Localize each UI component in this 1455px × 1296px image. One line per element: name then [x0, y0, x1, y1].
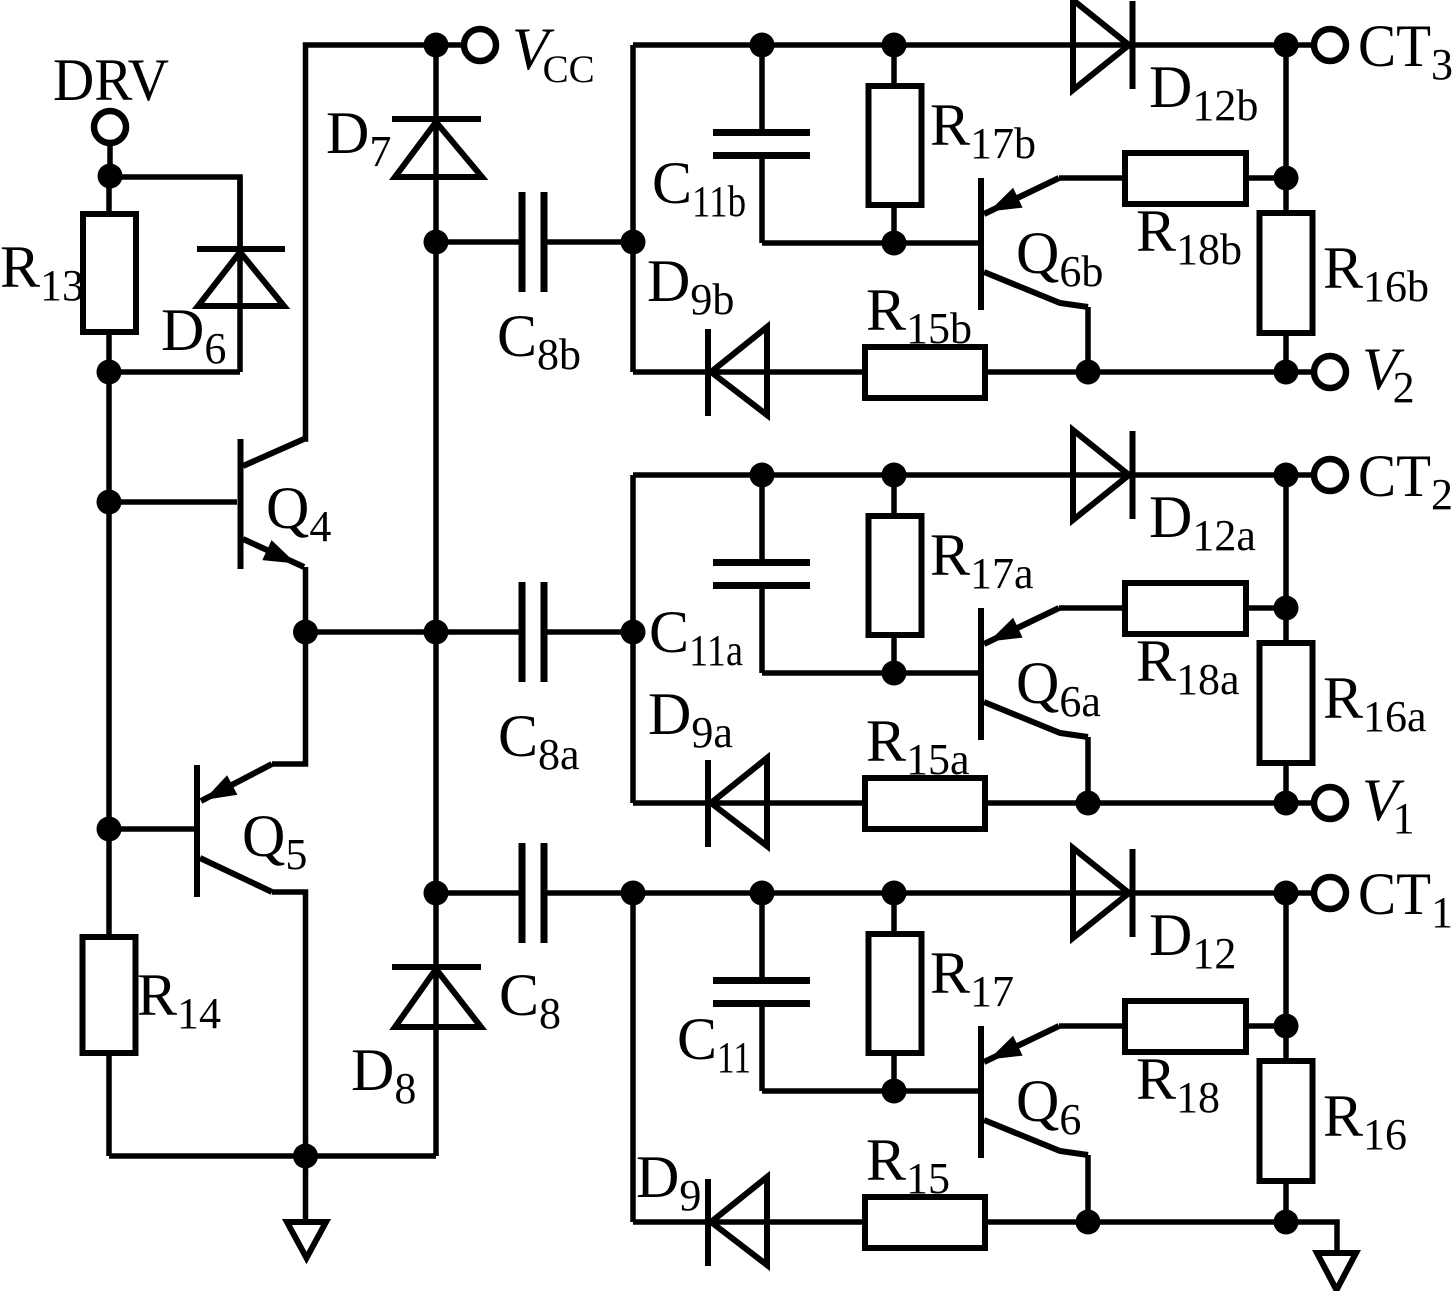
transistor Q5: [194, 765, 200, 897]
diode D12a: [1073, 430, 1129, 520]
wire R18b to right rail: [1246, 175, 1286, 181]
resistor R16: [1260, 1061, 1313, 1181]
wire C8 to row 1: [548, 890, 632, 896]
transistor Q6: [978, 1026, 984, 1158]
wire Q6 emitter to R18: [1059, 1023, 1125, 1029]
ground symbol right: [1317, 1253, 1356, 1290]
wire stage 1 top rail: [633, 890, 1286, 896]
node R18 junction: [1274, 1014, 1299, 1039]
wire C8b to row b: [548, 239, 634, 245]
diode D8: [395, 969, 481, 1027]
wire Q6b collector down: [1085, 307, 1091, 372]
resistor R13: [106, 176, 112, 214]
node CT3 junction: [1274, 33, 1299, 58]
wire C8a to row a: [548, 629, 634, 635]
node R17a bottom: [882, 661, 907, 686]
node Q6b collector junction: [1076, 360, 1101, 385]
resistor R16b: [1260, 213, 1313, 333]
terminal CT3: [1286, 42, 1312, 48]
capacitor C11a: [759, 475, 765, 559]
capacitor C8: [519, 843, 526, 943]
wire Q6b emitter to R18b: [1059, 175, 1125, 181]
diode D7: [395, 122, 482, 177]
capacitor C11b: [759, 45, 765, 129]
node CT1 junction: [1274, 881, 1299, 906]
node C8b connection: [621, 230, 646, 255]
resistor R16a: [1260, 643, 1313, 763]
resistor R15b: [865, 347, 985, 398]
terminal CT2: [1286, 472, 1312, 478]
wire bottom ground rail: [109, 1153, 436, 1159]
node stage a bottom right junction: [1274, 791, 1299, 816]
wire stage a right rail: [1283, 475, 1289, 803]
wire stage b right rail: [1283, 45, 1289, 372]
wire D6 to lower node: [109, 369, 240, 375]
wire left rail down: [106, 372, 112, 937]
wire output to C8a: [306, 629, 519, 635]
wire Q5 collector to ground rail: [272, 892, 306, 1156]
node VCC junction: [424, 33, 449, 58]
wire stage a top rail: [633, 472, 1286, 478]
wire stage b top rail: [633, 42, 1286, 48]
capacitor C8a: [519, 582, 526, 682]
node CT2 junction: [1274, 463, 1299, 488]
wire VCC rail top: [436, 42, 461, 48]
wire stage a left edge: [630, 475, 636, 803]
diode D6: [237, 177, 243, 372]
wire stage 1 bottom rail: [633, 1219, 1286, 1225]
node C8a tap: [424, 620, 449, 645]
node C11b top: [750, 33, 775, 58]
wire stage 1 left edge: [630, 893, 636, 1222]
terminal V2: [1286, 369, 1312, 375]
wire stage b base rail: [762, 240, 978, 246]
transistor Q6a: [978, 608, 984, 740]
wire Q5 base: [109, 826, 194, 832]
wire stage a base rail: [762, 670, 978, 676]
terminal DRV: [94, 111, 126, 143]
wire stage b bottom rail: [633, 369, 1286, 375]
wire Q6a collector down: [1085, 737, 1091, 803]
wire Q4 emitter to output node: [303, 567, 309, 632]
resistor R15a: [865, 778, 985, 829]
wire to C8: [436, 890, 519, 896]
diode D12b: [1073, 0, 1129, 90]
node Q4 base junction: [97, 490, 122, 515]
wire Q4 base: [109, 499, 237, 505]
transistor Q6b: [978, 178, 984, 310]
resistor R14: [83, 937, 136, 1053]
wire stage 1 base rail: [762, 1088, 978, 1094]
wire R18a to right rail: [1246, 605, 1286, 611]
capacitor C11: [759, 893, 765, 977]
node stage 1 bottom right junction: [1274, 1210, 1299, 1235]
node R18a junction: [1274, 596, 1299, 621]
node Q5 base junction: [97, 817, 122, 842]
resistor R18b: [1125, 153, 1246, 204]
wire Q4 collector to VCC rail: [304, 45, 436, 439]
svg-text:DRV: DRV: [53, 47, 169, 113]
resistor R18: [1125, 1001, 1246, 1052]
wire stage a bottom rail: [633, 800, 1286, 806]
resistor R15: [865, 1197, 985, 1248]
wire to ground right: [1286, 1222, 1337, 1253]
node driver output: [293, 620, 318, 645]
node C11 top: [750, 881, 775, 906]
diode D9a: [705, 760, 711, 847]
node DRV junction: [98, 164, 123, 189]
wire stage b left edge: [630, 45, 636, 372]
node Q6 collector junction: [1076, 1210, 1101, 1235]
node ground junction: [293, 1144, 318, 1169]
wire Q5 emitter to output node: [272, 632, 306, 764]
diode D9b: [705, 329, 711, 416]
transistor Q4: [238, 439, 244, 569]
node Q6a collector junction: [1076, 791, 1101, 816]
node R18b junction: [1274, 166, 1299, 191]
node C8 tap: [424, 881, 449, 906]
node R17 top: [882, 881, 907, 906]
node C8a connection: [621, 620, 646, 645]
diode D12: [1073, 848, 1129, 938]
node R17b bottom: [882, 231, 907, 256]
wire clamp rail vertical: [433, 45, 439, 1030]
wire Q6a emitter to R18a: [1059, 605, 1125, 611]
terminal VCC: [464, 29, 496, 61]
node C8b tap: [424, 230, 449, 255]
node C11a top: [750, 463, 775, 488]
diode D9: [705, 1179, 711, 1266]
wire stage 1 right rail: [1283, 893, 1289, 1222]
node R17 bottom: [882, 1079, 907, 1104]
terminal CT1: [1286, 890, 1312, 896]
capacitor C8b: [519, 192, 526, 292]
resistor R17: [891, 893, 897, 1091]
wire DRV node to D6: [110, 177, 240, 249]
node R17a top: [882, 463, 907, 488]
resistor R18a: [1125, 583, 1246, 634]
wire Q6 collector down: [1085, 1155, 1091, 1222]
wire R18 to right rail: [1246, 1023, 1286, 1029]
wire to C8b: [436, 239, 519, 245]
node C8 connection: [621, 881, 646, 906]
node R13/D6 lower junction: [97, 360, 122, 385]
ground symbol left: [303, 1156, 309, 1222]
node stage b bottom right junction: [1274, 360, 1299, 385]
node R17b top: [882, 33, 907, 58]
terminal V1: [1286, 800, 1312, 806]
resistor R17a: [891, 475, 897, 673]
resistor R17b: [891, 45, 897, 243]
